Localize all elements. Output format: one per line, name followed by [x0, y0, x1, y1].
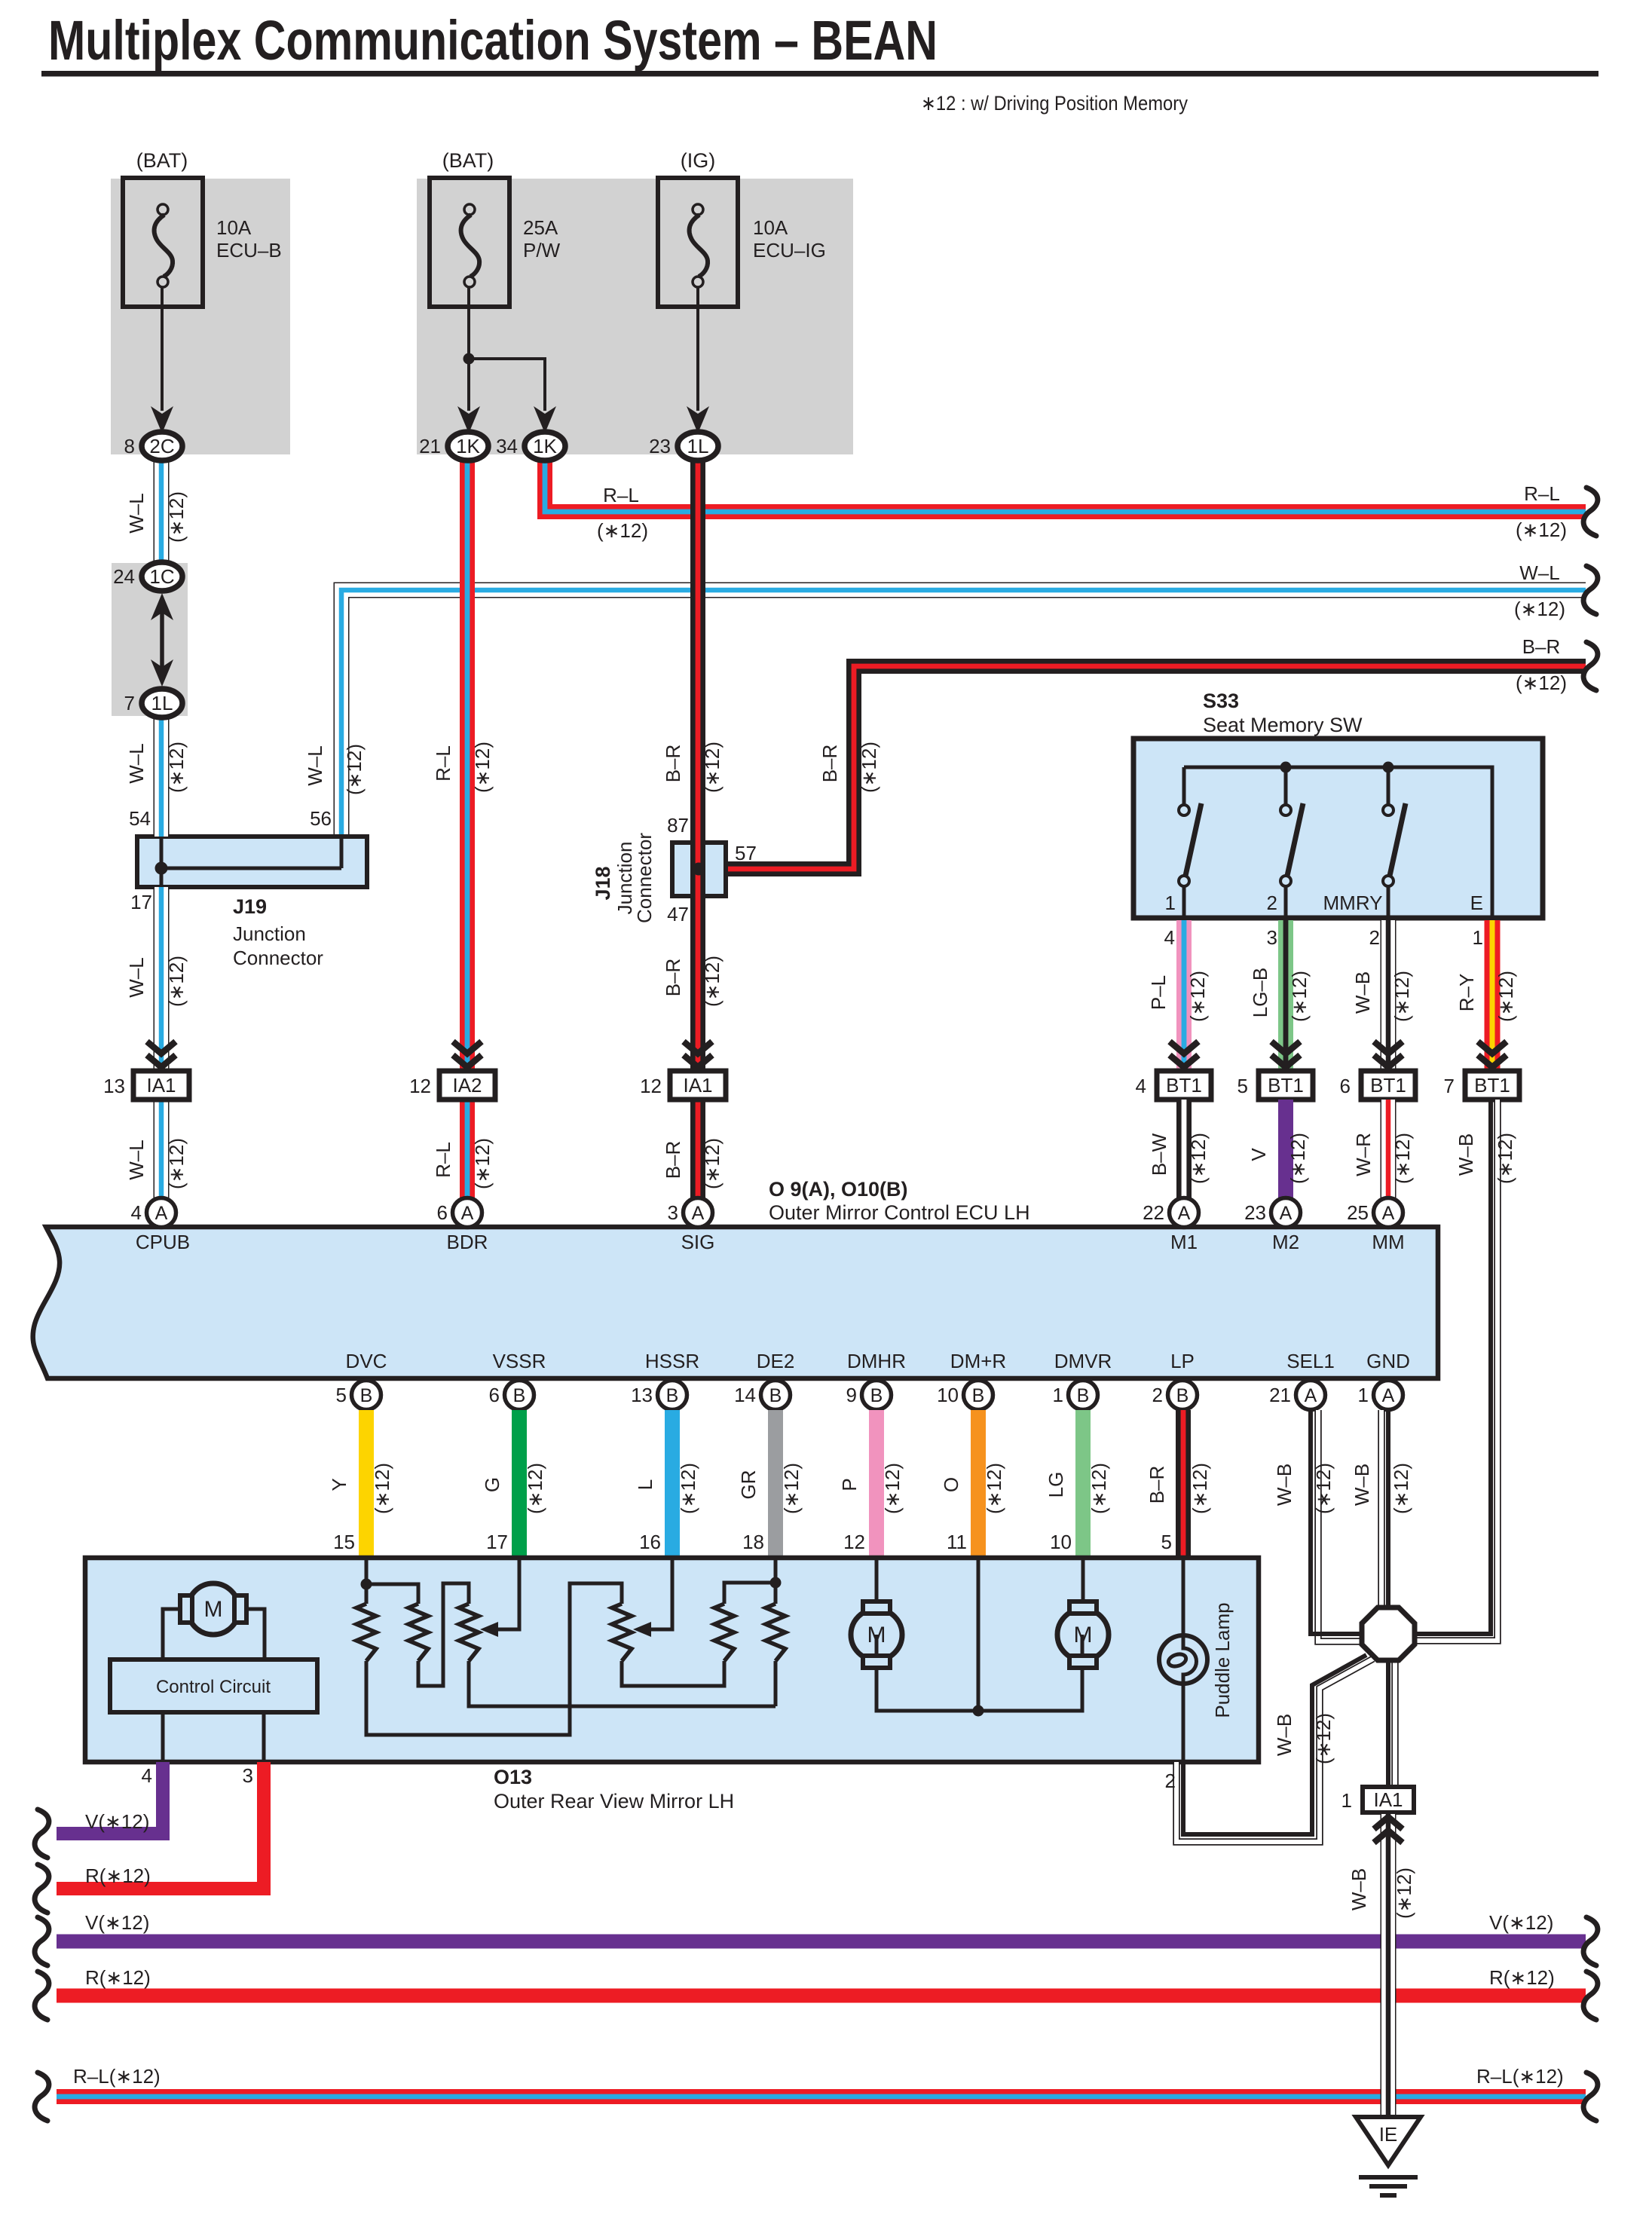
svg-text:G: G: [481, 1477, 503, 1492]
svg-text:R–L: R–L: [432, 745, 454, 782]
wire GR DE2 to mirror pin18: [768, 1410, 783, 1558]
svg-text:12: 12: [409, 1075, 431, 1097]
svg-text:V(∗12): V(∗12): [85, 1911, 149, 1934]
svg-text:5: 5: [1237, 1075, 1248, 1097]
svg-text:(∗12): (∗12): [1393, 1868, 1415, 1919]
svg-text:LP: LP: [1170, 1350, 1195, 1372]
svg-text:DMVR: DMVR: [1054, 1350, 1112, 1372]
svg-text:17: 17: [486, 1531, 508, 1553]
svg-text:13: 13: [631, 1384, 653, 1406]
svg-text:2C: 2C: [149, 435, 174, 457]
svg-text:1: 1: [1473, 926, 1483, 949]
svg-text:(∗12): (∗12): [165, 956, 188, 1007]
svg-text:R(∗12): R(∗12): [85, 1865, 151, 1887]
ECU pin 5 B: [352, 1381, 381, 1410]
wire B-R from IA1 to ECU pin3 SIG: [690, 1100, 705, 1200]
svg-text:R(∗12): R(∗12): [1489, 1966, 1555, 1989]
svg-text:BDR: BDR: [447, 1231, 488, 1253]
svg-text:1L: 1L: [151, 692, 173, 714]
svg-text:6: 6: [489, 1384, 500, 1406]
fuse 25A P/W: [430, 178, 509, 307]
svg-text:2: 2: [1267, 892, 1277, 914]
svg-text:IA1: IA1: [1373, 1788, 1403, 1811]
svg-text:16: 16: [639, 1531, 661, 1553]
svg-text:DVC: DVC: [346, 1350, 387, 1372]
svg-text:(∗12): (∗12): [1288, 971, 1311, 1022]
svg-text:14: 14: [734, 1384, 756, 1406]
svg-text:25A: 25A: [523, 216, 558, 239]
ECU pin 6 B: [505, 1381, 534, 1410]
connector IA1 pin13: [133, 1071, 189, 1100]
wire B-W from BT1-4 to ECU pin22 M1: [1176, 1100, 1192, 1200]
svg-text:22: 22: [1143, 1201, 1164, 1224]
svg-text:(∗12): (∗12): [1516, 519, 1567, 541]
arrow into IA2 pin12: [453, 1042, 482, 1054]
svg-text:SIG: SIG: [681, 1231, 715, 1253]
svg-text:O13: O13: [494, 1766, 532, 1788]
svg-text:B: B: [666, 1385, 679, 1406]
connector oval 1L pin23: [678, 432, 718, 460]
svg-text:W–B: W–B: [1455, 1133, 1477, 1176]
svg-text:(∗12): (∗12): [1390, 971, 1413, 1022]
svg-text:10: 10: [1050, 1531, 1072, 1553]
ECU pin 1 A: [1374, 1381, 1403, 1410]
wire-break squiggle B-R right: [1583, 642, 1598, 690]
svg-text:MMRY: MMRY: [1323, 892, 1383, 914]
wire G VSSR to mirror pin17: [512, 1410, 527, 1558]
svg-text:3: 3: [668, 1201, 678, 1224]
wire W-B from BT1-7 down to ground octagon: [1415, 1100, 1498, 1641]
svg-text:A: A: [1305, 1385, 1317, 1406]
resistor R2: [408, 1604, 428, 1661]
svg-text:W–L: W–L: [125, 1140, 148, 1179]
svg-text:34: 34: [496, 435, 518, 457]
svg-text:Junction: Junction: [233, 922, 306, 945]
ECU pin 10 B: [964, 1381, 993, 1410]
svg-text:12: 12: [843, 1531, 865, 1553]
svg-text:Y: Y: [328, 1478, 350, 1491]
ECU pin 25 A (MM): [1374, 1198, 1403, 1228]
svg-text:(IG): (IG): [681, 149, 716, 172]
svg-text:7: 7: [1444, 1075, 1455, 1097]
svg-text:B–R: B–R: [662, 745, 684, 783]
S33 internal bus: [1184, 767, 1492, 918]
connector BT1 pin4: [1157, 1071, 1211, 1100]
connector oval 1L pin7: [142, 689, 182, 717]
motor DMHR/DM+R: [851, 1609, 902, 1660]
wire: fuse ECU-IG to connector 1L pin23: [696, 287, 699, 411]
svg-text:18: 18: [742, 1531, 764, 1553]
svg-text:(∗12): (∗12): [165, 491, 188, 543]
gray block: ECU-B fuse area: [111, 179, 290, 454]
junction connector J18 box: [672, 843, 726, 896]
svg-text:56: 56: [310, 807, 332, 830]
ECU pin 22 A (M1): [1170, 1198, 1199, 1228]
wire B-R (*12) from J18 pin57 up and right to edge: [699, 867, 724, 871]
pot wiper arrow from pin17: [496, 1558, 519, 1629]
S33 bus junction dots: [1280, 762, 1292, 773]
J19 internal junction dot: [155, 862, 168, 875]
svg-text:(∗12): (∗12): [165, 742, 188, 793]
ECU pin 21 A: [1296, 1381, 1326, 1410]
svg-text:(∗12): (∗12): [343, 744, 366, 795]
mirror O13 Outer Rear View Mirror LH box: [85, 1558, 1259, 1762]
svg-text:P/W: P/W: [523, 239, 561, 262]
svg-text:A: A: [1178, 1203, 1191, 1224]
svg-text:W–L: W–L: [125, 493, 148, 533]
S33 switch 2: [1284, 767, 1288, 804]
svg-text:1C: 1C: [149, 565, 174, 588]
arrow into IA1 pin13: [147, 1042, 176, 1054]
svg-text:(∗12): (∗12): [780, 1463, 803, 1514]
svg-text:VSSR: VSSR: [493, 1350, 546, 1372]
svg-text:21: 21: [1269, 1384, 1291, 1406]
svg-text:∗12 : w/ Driving Position Memo: ∗12 : w/ Driving Position Memory: [921, 92, 1188, 115]
svg-text:P–L: P–L: [1147, 975, 1170, 1010]
resistor R4 (pot): [612, 1604, 632, 1661]
svg-text:R–L: R–L: [432, 1142, 454, 1178]
svg-text:15: 15: [333, 1531, 355, 1553]
svg-text:B: B: [513, 1385, 526, 1406]
ECU pin 2 B: [1168, 1381, 1198, 1410]
svg-text:Control Circuit: Control Circuit: [156, 1677, 271, 1697]
svg-text:1K: 1K: [533, 435, 557, 457]
svg-text:IE: IE: [1379, 2123, 1398, 2146]
mirror motor (drive): [163, 1609, 182, 1660]
svg-text:(∗12): (∗12): [858, 742, 880, 793]
svg-text:W–L: W–L: [125, 743, 148, 783]
svg-text:A: A: [155, 1203, 168, 1224]
svg-text:GND: GND: [1366, 1350, 1410, 1372]
ground symbol IE: [1356, 2117, 1421, 2165]
wire W-L from 1L to J19 pin54: [154, 716, 170, 837]
svg-text:W–L: W–L: [1519, 561, 1559, 584]
resistor R6: [766, 1604, 785, 1661]
svg-text:IA1: IA1: [683, 1074, 712, 1097]
wire L HSSR to mirror pin16: [665, 1410, 680, 1558]
svg-text:3: 3: [1267, 926, 1277, 949]
svg-text:A: A: [1382, 1385, 1395, 1406]
svg-text:S33: S33: [1203, 690, 1239, 712]
wire-break squiggle W-L right: [1583, 566, 1598, 614]
svg-text:MM: MM: [1372, 1231, 1404, 1253]
wire R-L (*12) horizontal from 1K pin34 to right edge: [545, 458, 1586, 512]
svg-text:R–Y: R–Y: [1455, 974, 1478, 1012]
svg-text:1: 1: [1341, 1789, 1352, 1812]
svg-text:M2: M2: [1272, 1231, 1299, 1253]
pot wiper arrow from pin16: [649, 1558, 672, 1629]
svg-text:B–R: B–R: [1522, 635, 1561, 658]
svg-text:GR: GR: [737, 1470, 760, 1500]
arrow into BT1 pin4: [1170, 1042, 1198, 1054]
gray block: P/W and ECU-IG fuse area: [417, 179, 853, 454]
svg-text:2: 2: [1369, 926, 1380, 949]
ECU pin 14 B: [761, 1381, 791, 1410]
arrow into BT1 pin6: [1374, 1042, 1403, 1054]
svg-text:R–L(∗12): R–L(∗12): [73, 2065, 161, 2088]
ECU O9(A)/O10(B) Outer Mirror Control ECU LH box: [33, 1227, 1438, 1378]
connector IA1 pin12: [670, 1071, 726, 1100]
wire: fuse P/W to connector 1K pin21: [467, 287, 470, 411]
svg-text:(∗12): (∗12): [1391, 1133, 1414, 1184]
svg-text:(∗12): (∗12): [677, 1463, 699, 1514]
wire LG-B from S33 pin3 to BT1: [1278, 920, 1293, 1071]
svg-text:3: 3: [243, 1764, 253, 1787]
svg-text:Outer Rear View Mirror LH: Outer Rear View Mirror LH: [494, 1790, 734, 1812]
svg-text:5: 5: [1161, 1531, 1172, 1553]
svg-text:Outer Mirror Control ECU LH: Outer Mirror Control ECU LH: [769, 1201, 1030, 1224]
svg-text:8: 8: [124, 435, 135, 457]
svg-text:(∗12): (∗12): [371, 1463, 393, 1514]
gray block: 1C/1L connector area: [112, 563, 188, 716]
wire R-L horizontal bus: [57, 2089, 1586, 2104]
svg-text:(∗12): (∗12): [1312, 1463, 1335, 1514]
wire W-B from S33 pin2 to BT1: [1381, 920, 1397, 1071]
wire V horizontal bus: [57, 1935, 1586, 1949]
svg-text:LG: LG: [1045, 1472, 1067, 1498]
svg-text:Seat Memory SW: Seat Memory SW: [1203, 714, 1363, 736]
svg-text:M1: M1: [1170, 1231, 1198, 1253]
puddle lamp bulb: [1159, 1635, 1207, 1684]
svg-text:57: 57: [735, 842, 757, 864]
svg-text:6: 6: [437, 1201, 448, 1224]
svg-text:(∗12): (∗12): [1516, 671, 1567, 694]
svg-text:(∗12): (∗12): [597, 519, 648, 542]
svg-text:4: 4: [1136, 1075, 1146, 1097]
svg-text:R–L: R–L: [1524, 482, 1560, 505]
wire R horizontal bus: [57, 1989, 1586, 2003]
ECU pin 1 B: [1069, 1381, 1098, 1410]
J18 junction dot: [693, 863, 705, 876]
resistor R1: [365, 1584, 369, 1604]
arrow into IA1 pin12: [684, 1042, 712, 1054]
svg-text:(∗12): (∗12): [471, 742, 494, 793]
svg-text:(∗12): (∗12): [881, 1463, 904, 1514]
svg-text:BT1: BT1: [1474, 1074, 1510, 1097]
svg-text:W–R: W–R: [1352, 1133, 1375, 1176]
svg-text:1L: 1L: [687, 435, 709, 457]
svg-text:4: 4: [1164, 926, 1175, 949]
svg-text:V(∗12): V(∗12): [85, 1810, 149, 1833]
svg-text:DMHR: DMHR: [847, 1350, 906, 1372]
wire LG DMVR to mirror pin10: [1075, 1410, 1091, 1558]
svg-text:O 9(A), O10(B): O 9(A), O10(B): [769, 1178, 908, 1201]
svg-text:B–W: B–W: [1148, 1133, 1170, 1176]
svg-text:11: 11: [947, 1531, 967, 1553]
wire R from mirror pin3: [57, 1762, 264, 1889]
connector oval 1K pin21: [448, 432, 488, 460]
svg-text:IA2: IA2: [452, 1074, 482, 1097]
junction node on P/W feed: [463, 353, 475, 365]
fuse 10A ECU-IG: [658, 178, 738, 307]
svg-text:B: B: [972, 1385, 985, 1406]
svg-text:(∗12): (∗12): [524, 1463, 546, 1514]
wire P-L from S33 pin4 to BT1: [1176, 920, 1192, 1071]
wire W-B from puddle lamp pin2 to octagon: [1176, 1659, 1373, 1842]
svg-text:(∗12): (∗12): [165, 1138, 188, 1189]
svg-text:Connector: Connector: [233, 947, 323, 969]
svg-text:DM+R: DM+R: [950, 1350, 1006, 1372]
resistor R5: [714, 1604, 734, 1661]
svg-text:B: B: [1176, 1385, 1189, 1406]
wire Y DVC to mirror pin15: [359, 1410, 374, 1558]
wire-break squiggle R-L right: [1583, 488, 1598, 536]
wire W-L from 2C to 1C: [154, 459, 170, 563]
svg-text:P: P: [838, 1478, 861, 1491]
svg-text:1: 1: [1165, 892, 1176, 914]
junction connector J19 box: [137, 837, 367, 887]
svg-text:W–L: W–L: [125, 957, 148, 997]
J19 internal wiring: [160, 837, 164, 887]
connector oval 2C pin8: [142, 432, 182, 460]
svg-text:2: 2: [1165, 1770, 1176, 1792]
svg-text:W–B: W–B: [1351, 1464, 1373, 1506]
connector oval 1K pin34: [525, 432, 565, 460]
wire P DMHR to mirror pin12: [869, 1410, 884, 1558]
svg-text:23: 23: [649, 435, 671, 457]
svg-text:(∗12): (∗12): [1312, 1713, 1335, 1764]
svg-text:V(∗12): V(∗12): [1489, 1911, 1553, 1934]
svg-text:Multiplex Communication System: Multiplex Communication System – BEAN: [48, 9, 938, 72]
svg-text:47: 47: [667, 903, 689, 925]
junction dot on DM+R line: [977, 1558, 980, 1711]
connector BT1 pin7: [1465, 1071, 1519, 1100]
svg-text:1: 1: [1053, 1384, 1063, 1406]
svg-text:B–R: B–R: [662, 959, 684, 997]
svg-text:10A: 10A: [216, 216, 252, 239]
connector BT1 pin5: [1259, 1071, 1313, 1100]
svg-text:R–L: R–L: [603, 484, 639, 506]
svg-text:W–B: W–B: [1351, 971, 1374, 1014]
svg-text:(∗12): (∗12): [701, 956, 724, 1007]
svg-text:(∗12): (∗12): [1186, 971, 1209, 1022]
svg-text:4: 4: [142, 1764, 152, 1787]
svg-text:Connector: Connector: [633, 833, 656, 923]
svg-text:A: A: [1382, 1203, 1395, 1224]
svg-text:(BAT): (BAT): [136, 149, 188, 172]
title underline: [41, 71, 1598, 77]
svg-text:Puddle Lamp: Puddle Lamp: [1211, 1602, 1234, 1718]
ECU pin 9 B: [862, 1381, 892, 1410]
connector BT1 pin6: [1361, 1071, 1415, 1100]
wire W-R from BT1-6 to ECU pin25 MM: [1381, 1100, 1397, 1200]
wire V from mirror pin4: [57, 1762, 163, 1834]
svg-text:W–L: W–L: [304, 745, 326, 785]
svg-text:O: O: [940, 1477, 962, 1492]
svg-text:A: A: [461, 1203, 474, 1224]
connector IA2 pin12: [439, 1071, 495, 1100]
svg-text:6: 6: [1340, 1075, 1351, 1097]
svg-text:R–L(∗12): R–L(∗12): [1476, 2065, 1564, 2088]
svg-text:B: B: [360, 1385, 373, 1406]
motor DMVR: [1057, 1609, 1109, 1660]
svg-text:HSSR: HSSR: [645, 1350, 699, 1372]
svg-text:25: 25: [1347, 1201, 1369, 1224]
svg-text:SEL1: SEL1: [1286, 1350, 1335, 1372]
svg-text:(∗12): (∗12): [1187, 1133, 1210, 1184]
wire W-B SEL1 to octagon: [1318, 1410, 1363, 1641]
svg-text:10A: 10A: [753, 216, 788, 239]
svg-text:(∗12): (∗12): [1286, 1133, 1309, 1184]
svg-text:4: 4: [131, 1201, 142, 1224]
svg-text:IA1: IA1: [146, 1074, 176, 1097]
wire W-B from IA1 to IE ground: [1381, 1814, 1397, 2115]
ground octagon junction: [1362, 1608, 1415, 1660]
svg-text:V: V: [1247, 1148, 1270, 1161]
svg-text:10: 10: [937, 1384, 959, 1406]
mirror pin15 internal node: [365, 1558, 369, 1584]
svg-text:(∗12): (∗12): [471, 1138, 494, 1189]
wire: fuse ECU-B to connector 2C: [161, 287, 164, 411]
wire: branch to connector 1K pin34: [469, 359, 545, 411]
svg-text:L: L: [634, 1479, 656, 1490]
svg-text:1: 1: [1358, 1384, 1369, 1406]
svg-text:M: M: [867, 1623, 886, 1647]
svg-text:E: E: [1470, 892, 1483, 914]
svg-text:A: A: [1280, 1203, 1293, 1224]
svg-text:M: M: [204, 1597, 223, 1622]
svg-text:R(∗12): R(∗12): [85, 1966, 151, 1989]
wire W-L from J19 pin17 to IA1: [154, 887, 170, 1071]
ECU pin 6 A (BDR): [453, 1198, 482, 1228]
svg-text:(∗12): (∗12): [1390, 1463, 1412, 1514]
svg-text:CPUB: CPUB: [136, 1231, 190, 1253]
wire W-B GND to octagon: [1378, 1410, 1385, 1613]
resistor R3 (pot): [459, 1604, 479, 1661]
connector IA1 pin1 (ground): [1363, 1787, 1414, 1812]
ECU pin 13 B: [658, 1381, 687, 1410]
svg-text:B–R: B–R: [662, 1141, 684, 1179]
svg-text:21: 21: [419, 435, 441, 457]
svg-text:W–B: W–B: [1348, 1868, 1370, 1910]
svg-text:(∗12): (∗12): [1189, 1463, 1211, 1514]
ECU pin 3 A (SIG): [684, 1198, 713, 1228]
wire V from BT1-5 to ECU pin23 M2: [1278, 1100, 1293, 1200]
svg-text:17: 17: [130, 891, 152, 913]
svg-text:B: B: [1077, 1385, 1090, 1406]
svg-text:BT1: BT1: [1268, 1074, 1304, 1097]
svg-text:W–B: W–B: [1273, 1464, 1296, 1506]
control circuit box: [110, 1660, 317, 1712]
wire R-Y from S33 pin1 to BT1: [1485, 920, 1501, 1071]
wire pin12 to motor: [875, 1558, 879, 1602]
svg-text:LG–B: LG–B: [1249, 968, 1271, 1018]
svg-text:7: 7: [124, 692, 135, 714]
svg-text:(∗12): (∗12): [701, 742, 724, 793]
fuse 10A ECU-B: [123, 178, 203, 307]
svg-text:B–R: B–R: [818, 745, 841, 783]
svg-text:9: 9: [846, 1384, 857, 1406]
svg-text:A: A: [692, 1203, 705, 1224]
arrow up into IA1: [1374, 1831, 1403, 1843]
S33 switch 3: [1387, 767, 1390, 804]
svg-text:54: 54: [129, 807, 151, 830]
ECU pin 4 A (CPUB): [147, 1198, 176, 1228]
mirror pin18 internal node: [774, 1558, 778, 1604]
svg-text:DE2: DE2: [757, 1350, 795, 1372]
svg-text:ECU–B: ECU–B: [216, 239, 282, 262]
svg-text:87: 87: [667, 814, 689, 837]
svg-text:ECU–IG: ECU–IG: [753, 239, 826, 262]
svg-text:B: B: [870, 1385, 883, 1406]
svg-text:J18: J18: [592, 866, 614, 900]
svg-text:(BAT): (BAT): [442, 149, 494, 172]
S33 switch 1: [1182, 767, 1186, 804]
svg-text:(∗12): (∗12): [983, 1463, 1005, 1514]
svg-text:24: 24: [113, 565, 135, 588]
svg-text:2: 2: [1152, 1384, 1163, 1406]
arrow into BT1 pin7: [1478, 1042, 1507, 1054]
